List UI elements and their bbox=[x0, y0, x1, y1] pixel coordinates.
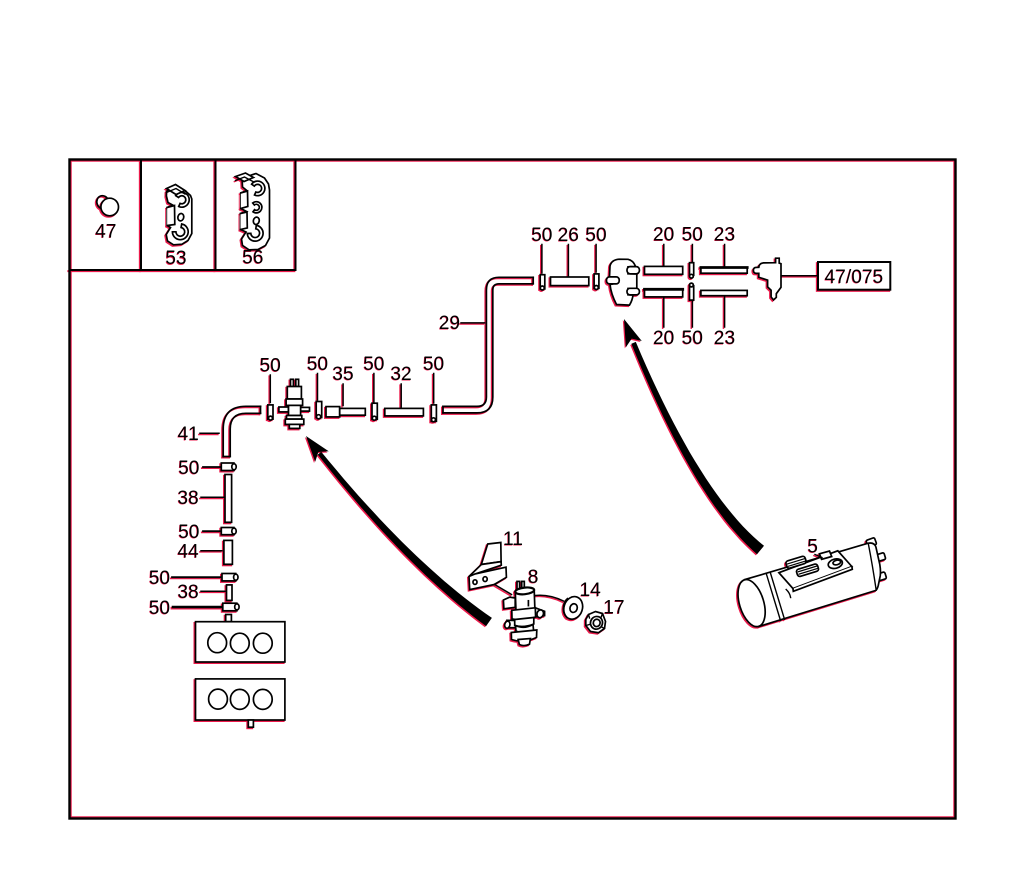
svg-text:50: 50 bbox=[585, 225, 606, 246]
svg-text:50: 50 bbox=[307, 354, 328, 375]
svg-text:41: 41 bbox=[178, 424, 199, 445]
svg-text:44: 44 bbox=[178, 542, 200, 563]
svg-text:50: 50 bbox=[149, 598, 170, 619]
svg-text:20: 20 bbox=[653, 225, 674, 246]
svg-text:35: 35 bbox=[332, 364, 353, 385]
svg-text:47/075: 47/075 bbox=[825, 267, 884, 288]
svg-text:38: 38 bbox=[178, 488, 199, 509]
black line art bbox=[70, 160, 891, 728]
svg-text:8: 8 bbox=[528, 567, 539, 588]
svg-text:32: 32 bbox=[391, 364, 412, 385]
svg-text:50: 50 bbox=[682, 225, 703, 246]
svg-text:14: 14 bbox=[580, 580, 602, 601]
svg-text:23: 23 bbox=[714, 225, 735, 246]
red ghost of labels bbox=[95, 222, 883, 619]
svg-text:23: 23 bbox=[714, 328, 735, 349]
svg-text:50: 50 bbox=[423, 354, 444, 375]
svg-text:11: 11 bbox=[503, 529, 523, 550]
svg-text:5: 5 bbox=[807, 536, 818, 557]
svg-text:50: 50 bbox=[178, 458, 199, 479]
svg-text:50: 50 bbox=[260, 355, 281, 376]
black labels bbox=[95, 221, 883, 618]
svg-text:50: 50 bbox=[178, 522, 199, 543]
svg-text:50: 50 bbox=[531, 225, 552, 246]
svg-text:50: 50 bbox=[363, 354, 384, 375]
svg-text:53: 53 bbox=[165, 248, 186, 269]
svg-text:56: 56 bbox=[242, 248, 263, 269]
frame border red ghost bbox=[71, 161, 954, 817]
svg-text:20: 20 bbox=[653, 328, 674, 349]
svg-text:47: 47 bbox=[95, 221, 116, 242]
svg-text:26: 26 bbox=[558, 225, 579, 246]
svg-text:17: 17 bbox=[603, 598, 624, 619]
svg-text:29: 29 bbox=[439, 313, 460, 334]
red ghost of line art bbox=[68, 161, 889, 729]
frame border bbox=[70, 160, 956, 819]
svg-text:50: 50 bbox=[682, 328, 703, 349]
svg-text:38: 38 bbox=[178, 582, 199, 603]
svg-text:50: 50 bbox=[149, 568, 170, 589]
